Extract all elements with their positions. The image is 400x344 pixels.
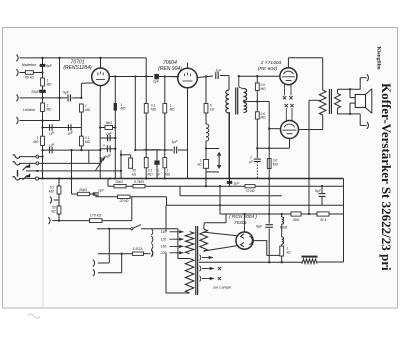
- svg-text:MΩ: MΩ: [170, 108, 176, 112]
- svg-text:2µF: 2µF: [152, 79, 160, 83]
- svg-text:MΩ: MΩ: [273, 163, 279, 167]
- svg-text:10kΩ: 10kΩ: [115, 180, 123, 184]
- svg-text:1µF: 1µF: [216, 69, 223, 73]
- svg-text:MΩ: MΩ: [33, 140, 39, 144]
- svg-text:kΩ: kΩ: [287, 251, 292, 255]
- svg-text:MΩ: MΩ: [49, 189, 55, 193]
- svg-text:MΩ: MΩ: [47, 107, 53, 111]
- svg-text:+: +: [103, 143, 106, 148]
- svg-text:1µF: 1µF: [106, 132, 113, 136]
- svg-text:MΩ: MΩ: [85, 140, 91, 144]
- svg-text:MΩ: MΩ: [121, 107, 127, 111]
- svg-text:20µF: 20µF: [30, 90, 40, 94]
- svg-text:70301: 70301: [234, 220, 247, 225]
- svg-text:72 kΩ: 72 kΩ: [246, 189, 255, 193]
- svg-text:1.5/2A: 1.5/2A: [132, 247, 143, 251]
- svg-text:MΩ: MΩ: [47, 82, 53, 86]
- svg-text:170 kΩ: 170 kΩ: [90, 214, 102, 218]
- svg-text:Koffer-Verstärker St 32622/23: Koffer-Verstärker St 32622/23 pri: [379, 83, 394, 271]
- svg-text:kΩ: kΩ: [132, 172, 137, 176]
- svg-text:1: 1: [250, 156, 252, 160]
- svg-text:20kΩ: 20kΩ: [78, 188, 87, 192]
- svg-text:8µF: 8µF: [315, 189, 322, 193]
- svg-text:2µF: 2µF: [97, 189, 105, 193]
- svg-text:(RE 604): (RE 604): [258, 66, 278, 72]
- svg-text:kΩ: kΩ: [197, 163, 202, 167]
- svg-text:Klangfilm: Klangfilm: [376, 46, 382, 70]
- svg-text:4µF: 4µF: [256, 225, 263, 229]
- svg-text:MΩ: MΩ: [261, 87, 267, 91]
- svg-text:(RENS1284): (RENS1284): [63, 65, 92, 71]
- svg-text:0.7MΩ: 0.7MΩ: [134, 180, 144, 184]
- svg-text:220: 220: [160, 251, 167, 255]
- svg-text:90Ω: 90Ω: [293, 218, 300, 222]
- svg-text:kΩ: kΩ: [51, 209, 56, 213]
- svg-text:MΩ: MΩ: [85, 108, 91, 112]
- svg-text:5kΩ: 5kΩ: [106, 121, 113, 125]
- svg-text:MΩ: MΩ: [165, 172, 171, 176]
- svg-text:Nadelton: Nadelton: [22, 63, 36, 67]
- svg-text:zur Lampe: zur Lampe: [212, 285, 231, 289]
- svg-text:MΩ: MΩ: [151, 108, 157, 112]
- svg-text:kΩ: kΩ: [210, 108, 215, 112]
- svg-text:2 ×71403: 2 ×71403: [260, 60, 282, 66]
- svg-text:150: 150: [161, 245, 167, 249]
- svg-text:St Ⅱ: St Ⅱ: [320, 218, 326, 222]
- svg-text:MΩ: MΩ: [261, 116, 267, 120]
- svg-text:5µF: 5µF: [63, 91, 70, 95]
- svg-text:6µF: 6µF: [46, 64, 53, 68]
- svg-text:Feld: Feld: [280, 225, 288, 229]
- svg-text:(REN 904): (REN 904): [158, 66, 182, 72]
- svg-text:20 kΩ: 20 kΩ: [119, 199, 129, 203]
- svg-text:2µF: 2µF: [233, 182, 241, 186]
- svg-text:80 kΩ: 80 kΩ: [25, 75, 34, 79]
- svg-text:110: 110: [161, 230, 167, 234]
- svg-text:MΩ: MΩ: [147, 172, 153, 176]
- svg-text:125: 125: [161, 238, 167, 242]
- svg-text:Lichtton: Lichtton: [23, 108, 36, 112]
- svg-text:1µF: 1µF: [171, 140, 178, 144]
- svg-text:( RGN 2004 ): ( RGN 2004 ): [229, 214, 257, 219]
